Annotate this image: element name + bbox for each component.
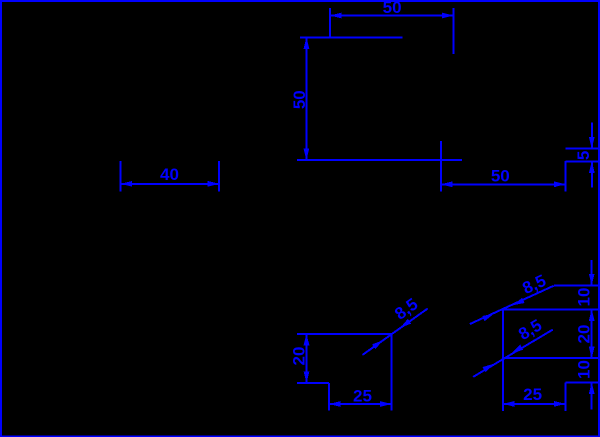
extension line top-left (x=330) [329, 8, 331, 37]
dimension line 10 bottom outside arrow [589, 383, 595, 410]
dimension line 40 [121, 181, 219, 187]
extension line y=382.5 [566, 382, 600, 384]
svg-text:5: 5 [574, 151, 593, 160]
extension line y=309.5 [503, 309, 599, 311]
svg-text:25: 25 [523, 385, 542, 404]
svg-text:20: 20 [290, 347, 309, 366]
extension line top-right (x=453.6) [453, 8, 455, 54]
svg-text:10: 10 [575, 288, 594, 307]
extension line cross vertical (x=440.9) [440, 141, 442, 192]
extension line 20-dim top [297, 333, 392, 335]
extension line right step vertical (x=565.5) [565, 161, 567, 192]
svg-text:25: 25 [353, 387, 372, 406]
extension line 25-dim left vertical [328, 383, 330, 411]
extension line 10-dim top (y=285.4) [554, 284, 599, 286]
extension line bottom-right vertical (x=565.5) [565, 383, 567, 412]
svg-text:40: 40 [160, 165, 179, 184]
extension line 40-dim right [218, 161, 220, 192]
dimension line 25 left group [329, 401, 391, 407]
dimension line 50 top [330, 13, 454, 19]
extension line y=37 horizontal [300, 36, 403, 38]
svg-text:20: 20 [575, 325, 594, 344]
dimension line 5 upper arrow [589, 122, 595, 148]
dimension line 10 top outside arrow [589, 260, 595, 285]
dimension line 5 lower arrow [589, 161, 595, 187]
extension line 40-dim left [120, 161, 122, 192]
dimension line 20 vertical [304, 334, 310, 383]
extension line 5-dim lower [566, 160, 600, 162]
dimension line 50 bottom [441, 181, 566, 187]
dimension line 50 left vertical [304, 37, 310, 160]
extension line 5-dim upper [566, 148, 600, 150]
extension line corner vertical (x=391.6) [391, 334, 393, 411]
svg-text:50: 50 [383, 0, 402, 17]
extension line y=160 horizontal [297, 159, 462, 161]
chamfer dimension line 8.5 upper bottom-right group [470, 286, 554, 324]
dimension line 25 bottom-right [503, 401, 566, 407]
svg-text:50: 50 [290, 90, 309, 109]
chamfer dimension line 8.5 lower-left group [363, 309, 428, 355]
dimension line 20 right vertical [589, 310, 595, 359]
svg-text:10: 10 [575, 360, 594, 379]
extension line 20-dim bottom [297, 382, 329, 384]
chamfer dimension line 8.5 lower bottom-right group [473, 330, 553, 377]
extension line left vertical (x=502.9) [502, 310, 504, 412]
svg-text:50: 50 [491, 167, 510, 186]
extension line y=358.1 [503, 357, 599, 359]
